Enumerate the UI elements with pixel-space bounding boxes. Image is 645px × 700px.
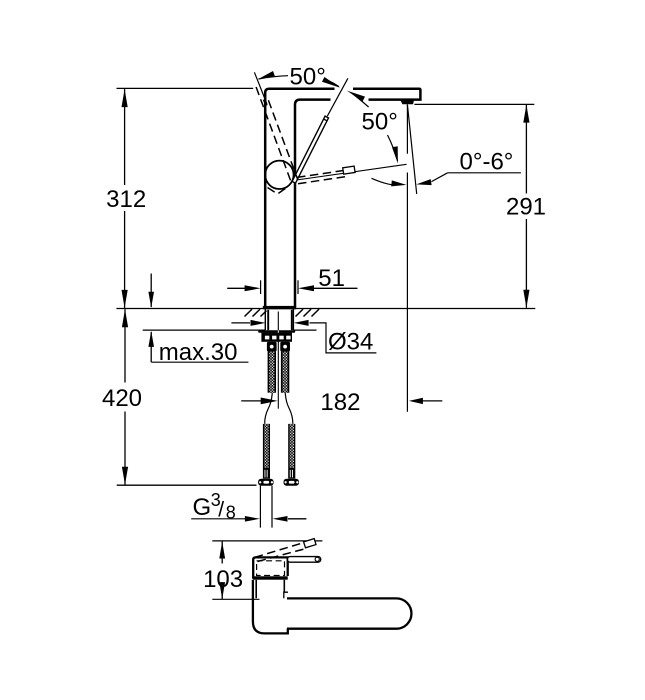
svg-text:8: 8: [226, 503, 236, 523]
svg-text:291: 291: [506, 194, 546, 221]
svg-text:max.30: max.30: [159, 339, 238, 366]
svg-text:Ø34: Ø34: [328, 329, 373, 356]
svg-text:0°-6°: 0°-6°: [460, 149, 514, 176]
svg-text:103: 103: [203, 566, 243, 593]
svg-text:50°: 50°: [362, 109, 398, 136]
svg-text:/: /: [218, 499, 224, 522]
svg-text:50°: 50°: [290, 64, 326, 91]
svg-text:51: 51: [318, 265, 345, 292]
svg-text:420: 420: [102, 385, 142, 412]
svg-text:182: 182: [320, 389, 360, 416]
svg-text:312: 312: [106, 186, 146, 213]
svg-text:G: G: [193, 494, 212, 521]
